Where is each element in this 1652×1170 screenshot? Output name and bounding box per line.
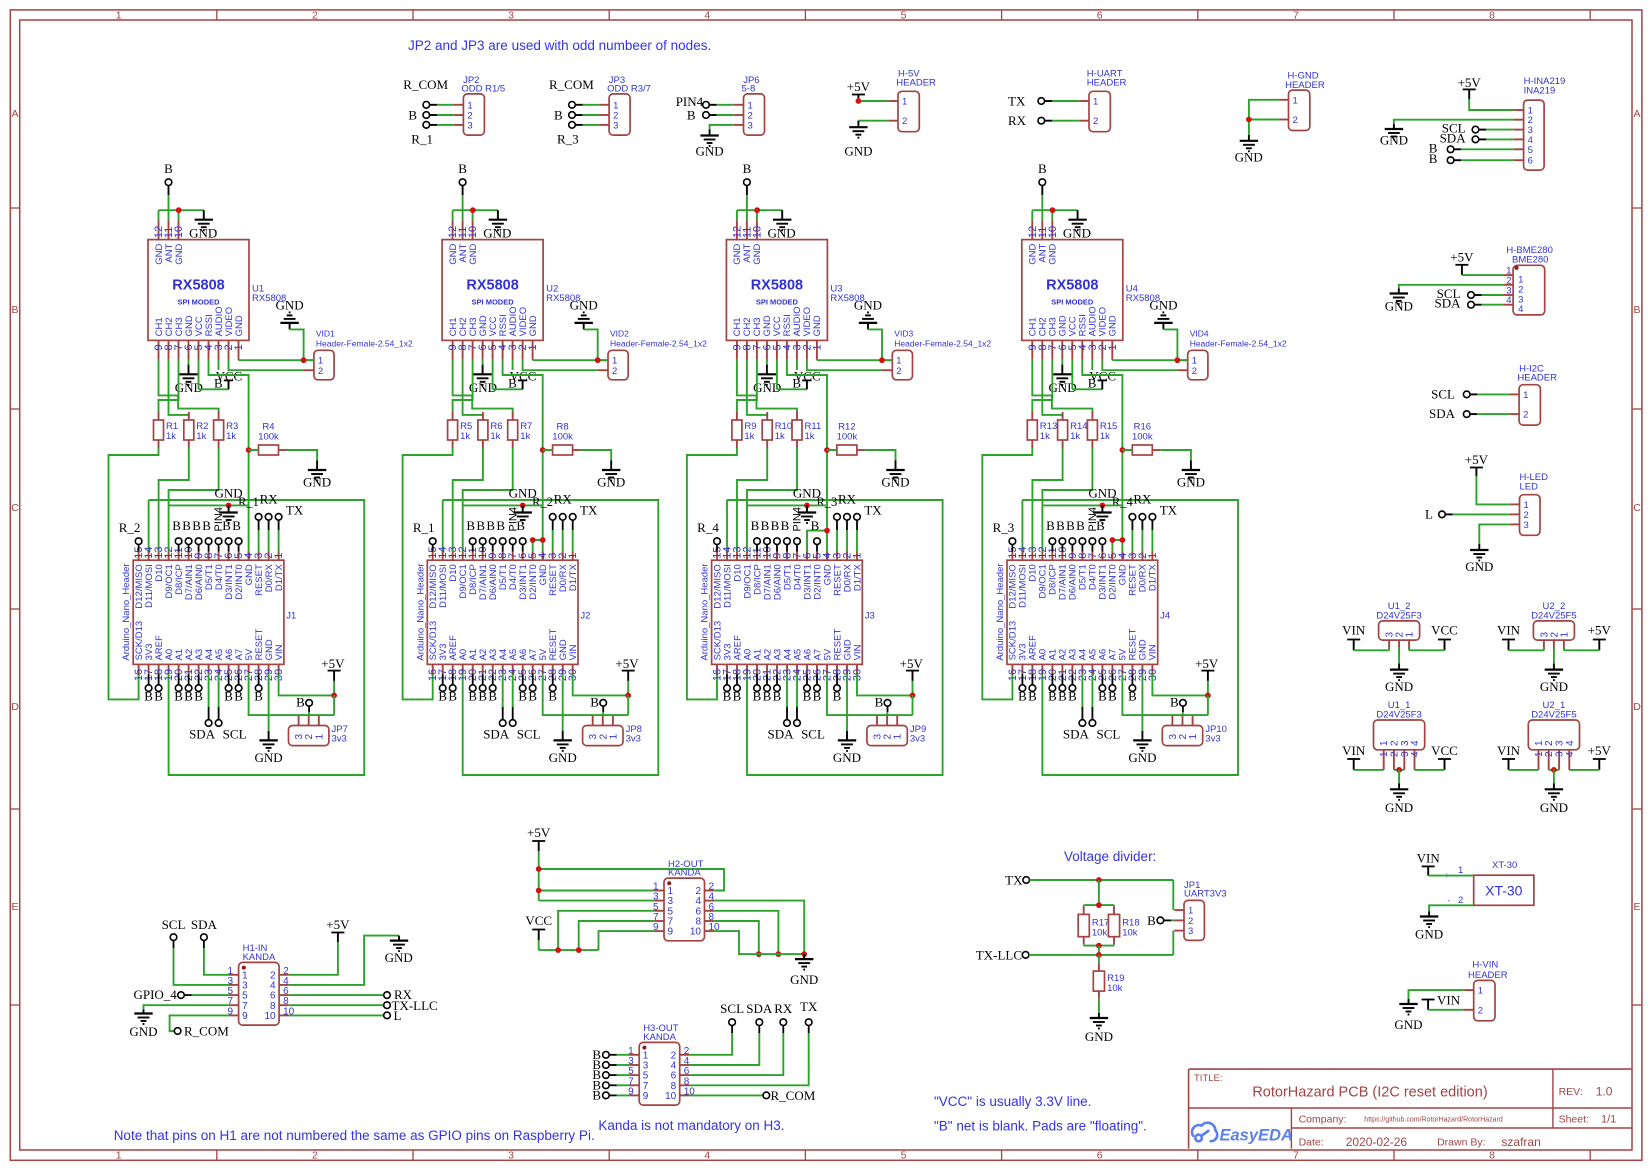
svg-text:GPIO_4: GPIO_4	[133, 987, 177, 1002]
svg-text:1: 1	[1293, 95, 1298, 106]
wire JP6 pin2 / pad B	[703, 112, 734, 119]
RF receiver U3 (RX5808)	[726, 220, 864, 359]
pad B (J1 bottom pin18)	[154, 674, 163, 703]
svg-text:B: B	[687, 108, 696, 123]
svg-text:GND: GND	[1465, 559, 1493, 574]
svg-text:+5V: +5V	[1195, 656, 1219, 671]
wire SCL pad to BME280 pin3	[1468, 292, 1504, 299]
svg-text:8: 8	[1489, 1149, 1495, 1161]
connector VID4 (Header-Female-2.54_1x2)	[1177, 329, 1286, 380]
wire U1 CH3 to resistor R1	[159, 360, 179, 413]
wire net R_4 (J4 loop)	[1022, 500, 1238, 775]
pad TX (J2 top pin1)	[569, 503, 598, 552]
wire JP2 pin3 / pad	[423, 122, 454, 129]
svg-text:1k: 1k	[520, 431, 530, 442]
resistor R2 1k	[184, 412, 209, 448]
EasyEDA logo	[1192, 1123, 1293, 1145]
wire U3 CH3 to resistor R9	[737, 360, 757, 413]
svg-text:B: B	[192, 518, 201, 533]
svg-text:D1/TX: D1/TX	[274, 564, 285, 592]
wire SDA pad to BME280 pin4	[1468, 301, 1504, 308]
pad B (J1 top pin11)	[172, 518, 182, 552]
svg-text:2: 2	[902, 116, 907, 127]
svg-text:SDA: SDA	[1063, 727, 1090, 742]
wire U4 AUDIO stub	[1091, 360, 1093, 370]
net label GND (J2 pin4 area)	[509, 486, 537, 501]
net label SCL (H-INA219)	[1442, 121, 1466, 136]
svg-text:9: 9	[242, 1011, 248, 1022]
svg-text:1: 1	[1405, 632, 1416, 638]
svg-text:10k: 10k	[1092, 927, 1108, 938]
pad B (J3 top pin7)	[794, 538, 801, 552]
pad B (J2 bottom pin17)	[438, 674, 447, 703]
wire JP3 pin3 / pad	[569, 122, 600, 129]
svg-text:1: 1	[902, 97, 907, 108]
svg-text:+5V: +5V	[900, 656, 924, 671]
svg-text:10: 10	[665, 1091, 677, 1102]
net label R_COM (JP2)	[403, 77, 448, 92]
wire ground to VID1 pin1 / U1 pin1	[239, 329, 314, 363]
svg-text:B: B	[554, 108, 563, 123]
svg-text:9: 9	[668, 927, 674, 938]
net label SCL (H-I2C)	[1431, 386, 1455, 401]
svg-text:Date:: Date:	[1299, 1137, 1324, 1149]
wire GND net near J3 pin4	[747, 503, 827, 509]
svg-text:RX5808: RX5808	[751, 278, 803, 294]
pad B (J3 bottom pin20)	[753, 674, 762, 703]
svg-text:D: D	[11, 701, 19, 713]
wire SDA pad to H-I2C pin2	[1463, 411, 1509, 418]
wire +5V to INA219 pin1	[1469, 99, 1514, 110]
power VIN (U1_1)	[1342, 743, 1366, 770]
svg-text:4: 4	[1565, 740, 1576, 746]
svg-text:GND: GND	[812, 315, 823, 336]
pad SDA (H1-IN)	[191, 917, 218, 948]
svg-text:1/1: 1/1	[1601, 1114, 1616, 1126]
wire to J1 pin14	[148, 500, 150, 552]
jumper JP9 (3v3)	[867, 716, 926, 746]
pad B (J2 top pin6)	[516, 518, 526, 552]
connector JP2 (ODD R1/5)	[454, 75, 506, 135]
wire U4 RSSI to R16 node	[1082, 360, 1125, 561]
wire H1-IN pin6 to RX pad	[289, 994, 384, 996]
svg-text:ODD R3/7: ODD R3/7	[607, 84, 651, 95]
wire SCL to H1-IN pin3	[174, 948, 229, 985]
svg-text:1k: 1k	[226, 431, 236, 442]
pad B (H3-OUT pin9)	[592, 1087, 629, 1102]
svg-text:GND: GND	[1088, 486, 1116, 501]
svg-text:GND: GND	[528, 315, 539, 336]
pad B (H3-OUT pin3)	[592, 1057, 629, 1072]
svg-text:B: B	[11, 304, 18, 316]
svg-text:GND: GND	[385, 950, 413, 965]
svg-text:Arduino_Nano_Header: Arduino_Nano_Header	[415, 563, 426, 660]
pad B (J1 bottom pin20)	[174, 674, 183, 703]
node B (above U2)	[458, 161, 467, 195]
svg-text:GND: GND	[1177, 475, 1205, 490]
ground (R4)	[303, 460, 331, 489]
svg-text:2: 2	[1192, 366, 1197, 377]
connector VID2 (Header-Female-2.54_1x2)	[598, 329, 707, 380]
wire +5V to H2-OUT pins 1,2,3	[536, 851, 724, 901]
svg-text:GND: GND	[483, 226, 511, 241]
svg-text:B: B	[813, 689, 822, 704]
pad B (H3-OUT pin7)	[592, 1077, 629, 1092]
svg-text:VID1: VID1	[316, 329, 335, 339]
svg-text:SPI MODED: SPI MODED	[472, 298, 515, 307]
svg-text:100k: 100k	[1132, 432, 1153, 443]
power VIN (U2_2)	[1497, 623, 1521, 651]
svg-text:SCL: SCL	[223, 727, 247, 742]
svg-text:KANDA: KANDA	[643, 1032, 676, 1043]
svg-text:4: 4	[704, 1149, 710, 1161]
connector H2-OUT (KANDA)	[653, 859, 720, 941]
pad B (J4 bottom pin18)	[1028, 674, 1037, 703]
svg-text:GND: GND	[597, 475, 625, 490]
svg-text:GND: GND	[1385, 299, 1413, 314]
svg-text:B: B	[154, 689, 163, 704]
wire to J2 pin14	[442, 500, 444, 552]
pad B (J4 top pin9)	[1066, 518, 1076, 552]
power VIN (H-VIN)	[1422, 993, 1461, 1010]
svg-text:B: B	[733, 689, 742, 704]
net label SDA (H-I2C)	[1429, 406, 1456, 421]
connector VID1 (Header-Female-2.54_1x2)	[304, 329, 413, 380]
wire R1 to J1 pin16 (loop)	[109, 448, 159, 699]
connector H-GND HEADER	[1279, 70, 1325, 130]
svg-text:2: 2	[1293, 115, 1298, 126]
wire U2 CH2 to resistor R6	[463, 360, 483, 417]
pad TX-LLC (H1-IN)	[384, 998, 438, 1013]
pad R_1 (J2 pin15)	[413, 520, 436, 552]
svg-text:VID2: VID2	[610, 329, 629, 339]
wire U2 CH3 to resistor R5	[453, 360, 473, 413]
svg-text:SCL: SCL	[517, 727, 541, 742]
svg-text:GND: GND	[129, 1024, 157, 1039]
svg-text:EasyEDA: EasyEDA	[1220, 1127, 1293, 1145]
net label SCL (H-BME280)	[1437, 286, 1461, 301]
pad B (JP9 pin2)	[875, 695, 891, 716]
pad B (J1 top pin9)	[192, 518, 202, 552]
ground (J1 pin29)	[255, 731, 283, 765]
jumper JP10 (3v3)	[1162, 716, 1227, 746]
svg-text:BME280: BME280	[1512, 254, 1548, 265]
regulator U2_2 (D24V25F5)	[1531, 601, 1576, 650]
header J4 (Arduino_Nano_Header)	[995, 546, 1170, 681]
pad B (J2 top pin11)	[466, 518, 476, 552]
resistor R16 100k	[1122, 422, 1160, 456]
ground (J4 pin29)	[1128, 731, 1156, 765]
svg-text:R_4: R_4	[697, 520, 719, 535]
svg-text:Voltage divider:: Voltage divider:	[1064, 849, 1156, 864]
power +5V (H-LED)	[1465, 452, 1489, 476]
svg-text:2: 2	[318, 366, 323, 377]
resistor R11 1k	[792, 412, 821, 448]
resistor R19 10k	[1093, 963, 1124, 998]
ground (U3 GND pin)	[753, 360, 781, 395]
wire U2 RSSI to R8 node	[503, 360, 546, 561]
svg-text:3v3: 3v3	[332, 734, 347, 745]
net label R_4	[1112, 495, 1134, 509]
wire JP3 pin2 / pad	[569, 112, 600, 119]
svg-text:VCC: VCC	[525, 913, 552, 928]
wire B to U2 top pins	[453, 195, 498, 220]
ground (U1_2)	[1385, 664, 1413, 694]
ground (R19)	[1085, 1013, 1113, 1044]
svg-text:KANDA: KANDA	[243, 952, 276, 963]
svg-text:B: B	[448, 689, 457, 704]
connector H-I2C HEADER	[1509, 364, 1557, 426]
svg-text:B: B	[1076, 518, 1085, 533]
pad SCL (H3-OUT)	[720, 1001, 744, 1026]
svg-text:1k: 1k	[744, 431, 754, 442]
wire R19 to ground	[1098, 999, 1100, 1013]
wire R7 to J2 pin12	[463, 448, 513, 552]
wire VIN to U2_1 pin1	[1509, 769, 1539, 771]
pad B (H3-OUT pin5)	[592, 1067, 629, 1082]
wire B pad to INA219 pin5	[1447, 146, 1514, 153]
pad TX (J1 top pin1)	[275, 503, 304, 552]
note: Kanda H3	[598, 1118, 784, 1133]
pad B (J1 bottom pin26)	[234, 674, 243, 703]
svg-text:R_COM: R_COM	[771, 1088, 816, 1103]
svg-text:7: 7	[1293, 9, 1299, 21]
wire B to U3 top pins	[737, 195, 782, 220]
wire JP2 pin2 / pad	[423, 112, 454, 119]
svg-text:3: 3	[1524, 520, 1529, 531]
pad B (J2 bottom pin25)	[518, 674, 527, 703]
svg-text:SPI MODED: SPI MODED	[177, 298, 220, 307]
svg-text:Arduino_Nano_Header: Arduino_Nano_Header	[700, 563, 711, 660]
svg-text:3: 3	[613, 120, 618, 131]
wire H-LED pin3 to ground	[1479, 524, 1510, 544]
resistor R13 1k	[1027, 412, 1057, 448]
svg-text:B: B	[296, 695, 305, 710]
svg-text:B: B	[753, 689, 762, 704]
svg-text:GND: GND	[1540, 800, 1568, 815]
wire H1-IN pin4 to ground	[289, 936, 399, 985]
wire U1 CH2 to resistor R2	[169, 360, 189, 417]
svg-text:1k: 1k	[196, 431, 206, 442]
wire U4 CH3 to resistor R13	[1032, 360, 1052, 413]
svg-text:A: A	[1633, 108, 1640, 120]
wire GND net near J4 pin4	[1042, 503, 1122, 509]
net label R_COM (JP3)	[549, 77, 594, 92]
pad B (J2 top pin10)	[476, 518, 486, 552]
pad B (J3 bottom pin17)	[723, 674, 732, 703]
svg-text:+5V: +5V	[321, 656, 345, 671]
svg-text:1: 1	[1093, 97, 1098, 108]
svg-text:1: 1	[233, 344, 245, 350]
wire JP3 pin1 / pad	[569, 102, 600, 109]
jumper JP1 (UART3V3)	[1174, 880, 1226, 941]
wire R3 to J1 pin12	[169, 448, 219, 552]
svg-text:SDA: SDA	[191, 917, 218, 932]
svg-text:B: B	[1147, 913, 1156, 928]
svg-text:VCC: VCC	[1431, 743, 1458, 758]
wire net R_2 (J2 loop)	[443, 500, 659, 775]
pad RX (J2 top pin2)	[554, 492, 573, 552]
wire R2 to J1 pin13	[159, 448, 189, 552]
wire +5V to JP9 pin1	[896, 714, 898, 717]
svg-text:2: 2	[896, 366, 901, 377]
svg-text:100k: 100k	[552, 432, 573, 443]
svg-text:VID3: VID3	[894, 329, 913, 339]
svg-text:1: 1	[1559, 632, 1570, 638]
pad RX (J1 top pin2)	[260, 492, 279, 552]
power +5V (H-INA219)	[1458, 75, 1482, 99]
wire U2 AUDIO stub	[512, 360, 514, 370]
svg-text:B: B	[408, 108, 417, 123]
svg-text:TX: TX	[864, 503, 882, 518]
pad TX-LLC (voltage divider)	[976, 947, 1029, 962]
wire U3 VIDEO to VID3 pin2	[807, 360, 882, 371]
resistor R7 1k	[508, 412, 533, 448]
wire R9 to J3 pin16 (loop)	[687, 448, 737, 699]
net label B (JP3)	[554, 108, 563, 123]
wire R6 to J2 pin13	[453, 448, 483, 552]
svg-text:GND: GND	[255, 750, 283, 765]
svg-text:GND: GND	[1048, 243, 1059, 264]
svg-text:Header-Female-2.54_1x2: Header-Female-2.54_1x2	[610, 338, 707, 348]
wire R5 to J2 pin16 (loop)	[403, 448, 453, 699]
svg-text:J2: J2	[580, 610, 590, 621]
svg-text:GND: GND	[854, 298, 882, 313]
svg-text:B: B	[476, 518, 485, 533]
svg-text:1: 1	[1107, 344, 1119, 350]
power VIN (XT-30)	[1417, 850, 1441, 875]
net label B (JP2)	[408, 108, 417, 123]
svg-text:SDA: SDA	[767, 727, 794, 742]
wire U4 CH1 to resistor R15	[1032, 360, 1092, 413]
ground (H-VIN)	[1394, 999, 1422, 1032]
svg-text:1: 1	[1458, 865, 1463, 876]
svg-text:+5V: +5V	[847, 79, 871, 94]
svg-text:5: 5	[901, 1149, 907, 1161]
svg-text:D: D	[1633, 701, 1641, 713]
svg-text:1k: 1k	[1100, 431, 1110, 442]
svg-text:+5V: +5V	[615, 656, 639, 671]
svg-text:RX: RX	[774, 1001, 793, 1016]
wire +5V to U2_1 pin4	[1569, 769, 1599, 771]
svg-text:1: 1	[314, 734, 325, 740]
resistor R8 100k	[543, 422, 581, 456]
resistor R3 1k	[214, 412, 239, 448]
pad B (J3 bottom pin28)	[833, 674, 842, 703]
net label TX (H-UART)	[1008, 94, 1026, 109]
wire J4 pin5 jog to pin4	[1110, 537, 1126, 551]
svg-text:SDA: SDA	[1434, 296, 1461, 311]
pad SCL (J2 A5)	[509, 674, 540, 741]
svg-text:+5V: +5V	[527, 825, 551, 840]
pad RX (J4 top pin2)	[1133, 492, 1152, 552]
resistor R10 1k	[762, 412, 792, 448]
svg-text:B: B	[164, 161, 173, 176]
svg-text:VIN: VIN	[274, 644, 285, 660]
pad B (J4 top pin10)	[1056, 518, 1066, 552]
svg-text:10: 10	[1047, 226, 1059, 238]
net label PIN4 (J1)	[213, 507, 225, 531]
svg-text:VIN: VIN	[1437, 993, 1461, 1008]
pad B (J2 top pin8)	[496, 518, 506, 552]
pad B (JP8 pin2)	[590, 695, 606, 716]
power +5V (U2_1)	[1588, 743, 1612, 770]
wire J2 GND pin29 to ground	[562, 674, 564, 731]
svg-text:GND: GND	[1063, 226, 1091, 241]
svg-text:GND: GND	[509, 486, 537, 501]
svg-text:3v3: 3v3	[626, 734, 641, 745]
svg-text:B: B	[184, 689, 193, 704]
wire U2 VIDEO to VID2 pin2	[523, 360, 598, 371]
connector H-VIN HEADER	[1464, 960, 1508, 1021]
pad B (J4 bottom pin25)	[1098, 674, 1107, 703]
pad SCL (J3 A5)	[794, 674, 825, 741]
svg-text:L: L	[1425, 506, 1433, 521]
wire U3 AUDIO stub	[796, 360, 798, 370]
ground (H-BME280)	[1385, 289, 1413, 314]
power +5V (H2-OUT)	[527, 825, 551, 851]
svg-text:B: B	[792, 376, 801, 391]
svg-text:GND: GND	[1108, 315, 1119, 336]
pad SDA (J4 A4)	[1063, 674, 1090, 741]
ground (VID3)	[854, 298, 882, 330]
wire H3-OUT pin6 to RX pad	[689, 1026, 783, 1076]
pad TX (voltage divider)	[1005, 873, 1029, 888]
svg-text:+5V: +5V	[1458, 75, 1482, 90]
svg-text:B: B	[1056, 518, 1065, 533]
svg-text:3: 3	[508, 9, 514, 21]
svg-text:B: B	[488, 689, 497, 704]
svg-text:GND: GND	[215, 486, 243, 501]
pad R_3 (J4 pin15)	[993, 520, 1016, 552]
pad B (J3 top pin5)	[811, 518, 821, 552]
connector H3-OUT (KANDA)	[628, 1023, 695, 1105]
pad SCL (J1 A5)	[215, 674, 246, 741]
ground (top of U4)	[1063, 210, 1091, 240]
RF receiver U4 (RX5808)	[1022, 220, 1160, 359]
pad SDA (J2 A4)	[483, 674, 510, 741]
svg-text:Drawn By:: Drawn By:	[1437, 1137, 1485, 1149]
svg-text:1: 1	[852, 553, 864, 559]
svg-text:GND: GND	[696, 144, 724, 159]
svg-text:GND: GND	[570, 298, 598, 313]
svg-text:J1: J1	[286, 610, 296, 621]
svg-text:R_3: R_3	[993, 520, 1015, 535]
pad B (J1 bottom pin25)	[224, 674, 233, 703]
svg-text:B: B	[773, 689, 782, 704]
svg-text:VIN: VIN	[1497, 623, 1521, 638]
pad TX (H3-OUT)	[800, 999, 818, 1026]
pad B (J4 bottom pin22)	[1068, 674, 1077, 703]
wire VCC to U1_1 pin4	[1415, 769, 1445, 771]
ground (U1_1)	[1385, 783, 1413, 815]
svg-text:GND: GND	[752, 243, 763, 264]
note: voltage divider heading	[1064, 849, 1156, 864]
wire H3-OUT pin8 to TX pad	[689, 1026, 808, 1086]
wire +5V to BME280 pin1	[1462, 274, 1504, 276]
pad R_COM (H3-OUT)	[763, 1088, 816, 1103]
net label PIN4 (J3)	[792, 507, 804, 531]
wire R13 to J4 pin16 (loop)	[982, 448, 1032, 699]
svg-text:B: B	[1038, 161, 1047, 176]
wire U2_1 pins 2,3 to ground	[1549, 767, 1559, 783]
pad B (J1 top pin8)	[202, 518, 212, 552]
title block	[1189, 1069, 1632, 1149]
svg-text:1: 1	[1523, 390, 1528, 401]
wire +5V/VIN net (J3)	[827, 674, 915, 715]
pad B (J3 bottom pin18)	[733, 674, 742, 703]
ground (J2 pin29)	[549, 731, 577, 765]
